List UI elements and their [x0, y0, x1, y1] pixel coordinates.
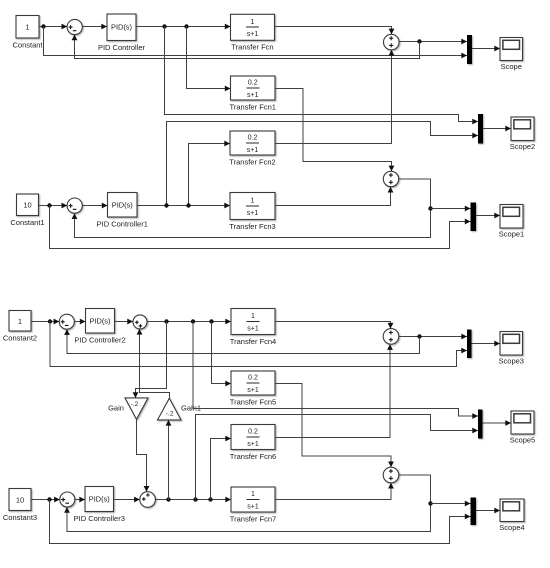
svg-text:1: 1 — [18, 317, 22, 326]
svg-text:Constant: Constant — [12, 40, 43, 49]
transfer function Transfer Fcn4 — [231, 309, 275, 335]
svg-text:Scope5: Scope5 — [510, 435, 535, 444]
wire S7 to Mux4 input 1 — [399, 334, 467, 340]
wire u3 to Transfer Fcn5 — [212, 322, 232, 387]
svg-text:Transfer Fcn6: Transfer Fcn6 — [230, 452, 276, 461]
wire Gain1 output to S6 bottom — [137, 329, 170, 398]
sum block sum S4 (y2 = G21+G22) — [383, 171, 398, 186]
mux Mux1 — [467, 35, 472, 64]
svg-text:Scope2: Scope2 — [510, 142, 535, 151]
wire y4 to Mux6 input 1 — [431, 501, 471, 507]
wire PID Controller to Transfer Fcn — [136, 24, 231, 30]
svg-text:PID(s): PID(s) — [89, 495, 110, 504]
mux Mux4 — [467, 330, 472, 359]
svg-text:Transfer Fcn3: Transfer Fcn3 — [229, 222, 275, 231]
svg-text:s+1: s+1 — [247, 441, 259, 448]
junction u1 branch — [162, 24, 166, 28]
sum block sum S5 (ref3 - y3) — [59, 314, 74, 329]
junction u3 branch a — [164, 319, 168, 323]
gain block Gain — [125, 398, 148, 419]
wire y1 feedback to S1 — [72, 35, 420, 59]
svg-text:Scope: Scope — [501, 62, 522, 71]
wire S8 to Transfer Fcn7 — [155, 497, 231, 503]
transfer function Transfer Fcn6 — [231, 425, 275, 450]
svg-text:Transfer Fcn: Transfer Fcn — [231, 43, 273, 52]
junction ref4 branch — [47, 497, 51, 501]
wire Transfer Fcn6 to S7 bottom — [275, 344, 393, 437]
svg-text:s+1: s+1 — [247, 210, 259, 217]
wire u3 to Mux5 input 1 — [193, 322, 478, 419]
wire Mux4 to Scope3 — [472, 341, 501, 347]
wire S3 to PID Controller1 — [82, 203, 107, 209]
wire Transfer Fcn to S2 top — [275, 27, 395, 35]
wire Mux3 to Scope1 — [476, 213, 500, 219]
transfer function Transfer Fcn7 — [231, 487, 275, 512]
junction Fcn1 feed branch — [184, 24, 188, 28]
junction u3 branch b — [191, 319, 195, 323]
wire PID Controller2 to S6 — [115, 319, 134, 325]
wire u2 to Mux2 input 2 — [167, 122, 479, 206]
svg-text:Transfer Fcn5: Transfer Fcn5 — [230, 397, 276, 406]
scope Scope3 — [500, 332, 523, 356]
wire y2 to Mux3 input 1 — [431, 206, 471, 212]
svg-text:PID Controller: PID Controller — [98, 43, 146, 52]
svg-text:Scope4: Scope4 — [499, 523, 524, 532]
svg-text:1: 1 — [251, 198, 255, 205]
wire Mux2 to Scope2 — [483, 126, 511, 132]
PID controller U3 — [86, 309, 115, 334]
wire u3 to Gain input — [133, 322, 167, 398]
wire Constant to S1 — [39, 24, 67, 30]
svg-text:1: 1 — [25, 23, 29, 32]
svg-text:PID(s): PID(s) — [111, 22, 132, 31]
junction u4 branch b — [193, 497, 197, 501]
svg-text:0.2: 0.2 — [248, 135, 258, 142]
constant block Constant — [16, 16, 39, 39]
scope Scope5 — [511, 411, 534, 434]
svg-text:s+1: s+1 — [247, 92, 259, 99]
wire ref4 to Mux6 input 2 — [50, 500, 471, 544]
svg-text:1: 1 — [251, 19, 255, 26]
wire PID Controller3 to S8 — [114, 497, 140, 503]
svg-text:s+1: s+1 — [247, 325, 259, 332]
wire Transfer Fcn3 to S4 bottom — [275, 187, 393, 206]
svg-text:Transfer Fcn1: Transfer Fcn1 — [230, 102, 276, 111]
wire u2 to Transfer Fcn2 — [189, 141, 231, 206]
svg-text:10: 10 — [23, 201, 31, 210]
svg-text:Gain: Gain — [108, 404, 124, 413]
sum block sum S3 (ref2 - y2) — [67, 198, 82, 213]
junction y3 branch — [417, 334, 421, 338]
junction ref1 branch — [41, 24, 45, 28]
transfer function Transfer Fcn2 — [230, 131, 275, 155]
svg-text:-.2: -.2 — [131, 401, 139, 408]
sum block sum S2 (y1 = G11+G12) — [384, 34, 400, 50]
svg-text:0.2: 0.2 — [248, 429, 258, 436]
sum block sum S8 (u4 = PID3 + Gain) — [140, 492, 156, 508]
wire u4 to Transfer Fcn6 — [211, 436, 232, 500]
svg-text:1: 1 — [251, 313, 255, 320]
constant block Constant1 — [17, 194, 39, 216]
junction ref3 branch — [48, 319, 52, 323]
transfer function Transfer Fcn — [231, 14, 275, 40]
junction u2 branch a — [164, 203, 168, 207]
svg-text:Scope3: Scope3 — [499, 356, 524, 365]
svg-text:s+1: s+1 — [247, 147, 259, 154]
wire y4 out and feedback to S9 — [64, 475, 430, 532]
svg-text:PID Controller3: PID Controller3 — [74, 514, 125, 523]
svg-text:Constant3: Constant3 — [3, 513, 37, 522]
svg-text:PID(s): PID(s) — [90, 316, 111, 325]
junction u4 branch a — [166, 497, 170, 501]
wire u4 to Mux5 input 2 — [196, 415, 479, 500]
wire Constant2 to S5 — [31, 319, 59, 325]
wire Mux6 to Scope4 — [476, 508, 500, 514]
svg-text:0.2: 0.2 — [248, 375, 258, 382]
svg-text:Constant2: Constant2 — [3, 333, 37, 342]
wire y2 out and feedback to S3 — [72, 179, 431, 238]
sum block sum S10 (y4 = G21+G22) — [383, 467, 399, 483]
transfer function Transfer Fcn1 — [231, 76, 276, 100]
junction y1 branch — [417, 39, 421, 43]
wire Gain output to S8 top — [137, 419, 150, 491]
constant block Constant3 — [9, 489, 31, 511]
junction u4 branch c — [208, 497, 212, 501]
PID controller U4 — [85, 487, 114, 512]
svg-text:PID Controller2: PID Controller2 — [74, 335, 125, 344]
junction u2 branch b — [186, 203, 190, 207]
scope Scope — [500, 38, 523, 61]
svg-text:s+1: s+1 — [247, 503, 259, 510]
wire S2 to Mux1 input 1 — [399, 39, 467, 45]
transfer function Transfer Fcn3 — [230, 193, 275, 220]
wire Mux1 to Scope — [472, 46, 500, 52]
svg-text:1: 1 — [251, 491, 255, 498]
wire Transfer Fcn4 to S7 top — [275, 322, 393, 329]
scope Scope1 — [500, 205, 523, 229]
mux Mux5 — [478, 410, 483, 439]
PID controller U2 — [108, 193, 138, 218]
sum block sum S6 (u3 = PID2 + Gain1) — [133, 315, 147, 329]
svg-text:0.2: 0.2 — [248, 80, 258, 87]
svg-text:s+1: s+1 — [247, 31, 259, 38]
constant block Constant2 — [9, 311, 31, 332]
junction ref2 branch — [47, 203, 51, 207]
wire ref2 to Mux3 input 2 — [50, 206, 471, 249]
wire y3 feedback to S5 — [64, 329, 419, 353]
mux Mux2 — [478, 114, 483, 144]
junction y2 branch — [428, 206, 432, 210]
junction y4 branch — [428, 501, 432, 505]
scope Scope4 — [500, 499, 524, 522]
wire u1 to Transfer Fcn1 — [187, 27, 231, 92]
svg-text:-.2: -.2 — [166, 410, 174, 417]
svg-text:PID(s): PID(s) — [112, 200, 133, 209]
svg-text:s+1: s+1 — [247, 387, 259, 394]
gain block Gain1 — [158, 398, 182, 420]
svg-text:PID Controller1: PID Controller1 — [97, 219, 148, 228]
wire Constant3 to S9 — [31, 497, 60, 503]
svg-text:10: 10 — [16, 496, 24, 505]
transfer function Transfer Fcn5 — [231, 371, 275, 395]
wire ref1 to Mux1 input 2 — [44, 27, 468, 59]
wire S1 to PID Controller — [82, 24, 107, 30]
scope Scope2 — [511, 117, 534, 141]
mux Mux6 — [471, 498, 477, 526]
wire Transfer Fcn2 to S2 bottom — [275, 50, 394, 144]
wire Transfer Fcn1 to S4 top — [275, 89, 394, 172]
wire S5 to PID Controller2 — [74, 319, 85, 325]
wire u4 to Gain1 input — [166, 420, 172, 500]
sum block sum S7 (y3 = G11+G12) — [383, 329, 399, 345]
svg-text:Scope1: Scope1 — [499, 229, 524, 238]
svg-text:Transfer Fcn7: Transfer Fcn7 — [230, 514, 276, 523]
svg-text:Transfer Fcn4: Transfer Fcn4 — [230, 337, 276, 346]
svg-text:Transfer Fcn2: Transfer Fcn2 — [229, 157, 275, 166]
svg-text:Constant1: Constant1 — [10, 218, 44, 227]
sum block sum S1 (ref1 - y1) — [67, 19, 82, 34]
PID controller U1 — [107, 14, 136, 41]
wire Mux5 to Scope5 — [483, 420, 512, 426]
wire Transfer Fcn5 to S10 top — [275, 384, 394, 468]
wire Constant1 to S3 — [39, 203, 68, 209]
wire u1 to Mux2 input 1 — [165, 27, 479, 125]
junction u3 branch c — [209, 319, 213, 323]
wire ref3 to Mux4 input 2 — [50, 322, 467, 367]
wire Transfer Fcn7 to S10 bottom — [275, 483, 394, 500]
sum block sum S9 (ref4 - y4) — [60, 492, 75, 507]
wire S9 to PID Controller3 — [75, 497, 85, 503]
wire S6 to Transfer Fcn4 — [147, 319, 231, 325]
wire PID Controller1 to Transfer Fcn3 — [137, 203, 230, 209]
mux Mux3 — [471, 203, 477, 232]
